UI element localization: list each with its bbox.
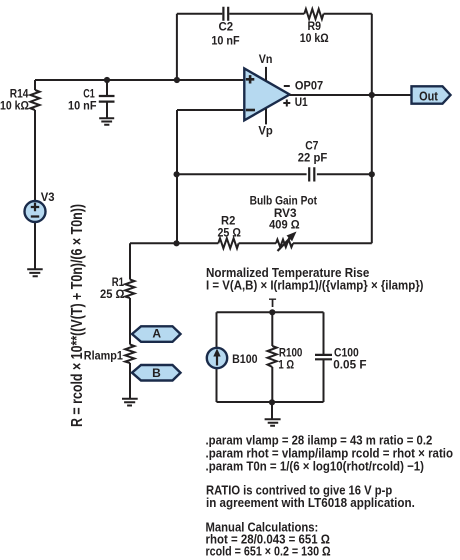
- svg-text:A: A: [152, 327, 161, 341]
- flag Out: [412, 86, 451, 103]
- flag A: [132, 326, 181, 342]
- capacitor C7: [309, 167, 314, 181]
- svg-text:B: B: [152, 366, 161, 380]
- svg-text:25 Ω: 25 Ω: [100, 287, 125, 301]
- svg-text:10 nF: 10 nF: [211, 33, 239, 47]
- svg-text:R = rcold × 10**((V(T) + T0n)/: R = rcold × 10**((V(T) + T0n)/(6 × T0n)): [69, 204, 86, 427]
- svg-text:.param T0n = 1/(6 × log10(rhot: .param T0n = 1/(6 × log10(rhot/rcold) −1…: [206, 458, 425, 473]
- wire pot loop bottom: [130, 242, 372, 244]
- wire output horizontal: [290, 94, 412, 96]
- svg-text:V3: V3: [41, 190, 55, 204]
- wire subcircuit middle branch: [271, 312, 273, 402]
- node junction feedback left: [174, 77, 180, 83]
- wire Vp stub: [265, 109, 267, 125]
- potentiometer RV3: [276, 240, 293, 248]
- wire top loop horizontal: [177, 13, 372, 15]
- svg-text:I = V(A,B) × I(rlamp1)/({vlamp: I = V(A,B) × I(rlamp1)/({vlamp} × {ilamp…: [206, 277, 424, 292]
- resistor R2: [218, 238, 238, 248]
- svg-text:rcold = 651 × 0.2 = 130 Ω: rcold = 651 × 0.2 = 130 Ω: [206, 543, 331, 558]
- svg-text:10 kΩ: 10 kΩ: [0, 99, 29, 113]
- wire Vn stub: [265, 67, 267, 81]
- svg-text:Rlamp1: Rlamp1: [84, 348, 123, 362]
- wire C7 horizontal: [177, 173, 372, 175]
- resistor Rlamp1: [125, 345, 134, 364]
- node C7 right junction: [369, 171, 375, 177]
- node pot loop junction: [173, 240, 179, 246]
- label U1: [283, 100, 290, 107]
- svg-text:Vp: Vp: [258, 124, 272, 138]
- svg-text:Out: Out: [419, 88, 438, 103]
- wire right vertical (output net): [371, 14, 373, 244]
- voltage source V3: [25, 201, 46, 222]
- capacitor C100: [315, 355, 332, 359]
- node junction C1: [104, 77, 110, 83]
- resistor R100: [268, 346, 277, 367]
- svg-text:1 Ω: 1 Ω: [278, 358, 294, 372]
- ground under subcircuit: [271, 402, 273, 419]
- current source B100: [207, 348, 227, 368]
- svg-text:U1: U1: [295, 95, 308, 109]
- resistor R9: [304, 9, 323, 19]
- svg-text:0.05 F: 0.05 F: [333, 358, 366, 372]
- wire left vertical (- input net down to pot loop): [176, 110, 178, 243]
- ground under Rlamp1: [122, 399, 138, 406]
- ground under C1: [99, 118, 114, 124]
- op-amp U1: [244, 69, 289, 121]
- node T junction: [269, 309, 275, 315]
- svg-text:10 kΩ: 10 kΩ: [300, 31, 329, 45]
- wire subcircuit left branch: [216, 312, 218, 402]
- resistor R1: [125, 280, 134, 299]
- wire R1 branch: [129, 243, 131, 398]
- flag B: [132, 365, 181, 381]
- label OP07: [284, 85, 290, 87]
- svg-text:C2: C2: [219, 20, 234, 34]
- svg-text:T: T: [269, 296, 277, 310]
- svg-text:25 Ω: 25 Ω: [218, 225, 242, 239]
- svg-text:10 nF: 10 nF: [68, 99, 97, 113]
- capacitor C2: [223, 7, 228, 21]
- svg-text:Vn: Vn: [259, 52, 273, 66]
- wire left vertical to C2/R9 loop: [176, 14, 178, 80]
- svg-text:22 pF: 22 pF: [298, 150, 327, 164]
- wire subcircuit right branch: [323, 312, 325, 402]
- wire subcircuit box bottom: [217, 401, 324, 403]
- ground under V3: [27, 269, 43, 276]
- wire R14 branch vertical: [34, 80, 36, 269]
- wire main top-left horizontal (+ input net): [35, 79, 244, 81]
- svg-text:OP07: OP07: [295, 79, 323, 93]
- node output junction: [369, 92, 375, 98]
- svg-text:B100: B100: [232, 352, 258, 366]
- wire subcircuit box top: [217, 311, 324, 313]
- resistor R14: [30, 90, 39, 110]
- capacitor C1: [106, 80, 108, 118]
- svg-text:409 Ω: 409 Ω: [269, 218, 300, 232]
- node bottom junction: [269, 399, 275, 405]
- node C7 left junction: [174, 171, 180, 177]
- svg-text:in agreement with LT6018 appli: in agreement with LT6018 application.: [206, 495, 415, 510]
- wire - input horizontal: [177, 109, 244, 111]
